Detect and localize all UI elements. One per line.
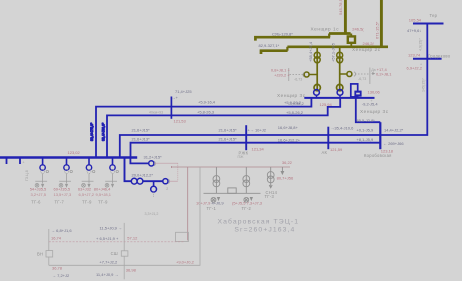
- wire feeder SUB-120.8: [255, 37, 330, 40]
- wire joint bus1 step: [328, 34, 330, 38]
- svg-text:16,6+Ј8,8+: 16,6+Ј8,8+: [278, 125, 299, 130]
- wire drop to station transformer lower: [125, 158, 163, 182]
- symbol TG-7 meas: [65, 169, 69, 173]
- svg-text:20,0+Ј12,2*: 20,0+Ј12,2*: [132, 172, 154, 177]
- breaker circle T2 LV: [337, 90, 343, 96]
- svg-text:36,22: 36,22: [282, 160, 293, 165]
- svg-text:121,59: 121,59: [330, 147, 343, 152]
- transformer TG-3 unit SN14: [270, 167, 272, 183]
- svg-text:71,4+Ј25: 71,4+Ј25: [175, 89, 192, 94]
- wire bus tick 2: [19, 158, 21, 165]
- busbar Ter: [413, 23, 444, 25]
- svg-text:ТГ-2: ТГ-2: [242, 206, 252, 211]
- generator G2 symbol: [244, 197, 249, 202]
- svg-text:(5+Ј5,5 7,3+Ј7,3: (5+Ј5,5 7,3+Ј7,3: [232, 201, 263, 206]
- svg-text:ТГ-9: ТГ-9: [82, 199, 92, 204]
- svg-text:+0,1-Ј5,9: +0,1-Ј5,9: [356, 127, 374, 132]
- svg-text:ТГ-1: ТГ-1: [207, 206, 217, 211]
- svg-text:Хенщир 2с: Хенщир 2с: [352, 47, 381, 52]
- svg-text:57,12: 57,12: [127, 236, 138, 241]
- svg-text:ВН: ВН: [37, 251, 43, 256]
- svg-text:80,7+Ј56: 80,7+Ј56: [277, 176, 294, 181]
- bus Khenshchir 2s: [287, 45, 388, 48]
- svg-text:246,2(: 246,2(: [363, 41, 375, 46]
- bus Khenshchir 1s: [329, 32, 351, 35]
- svg-text:123,74: 123,74: [408, 53, 421, 58]
- wire drop to station transformer upper: [130, 158, 148, 164]
- svg-text:Хенщир 3с: Хенщир 3с: [360, 109, 389, 114]
- wire V1 incoming 110kV line top: [344, 0, 347, 35]
- node Korobovskaya vertical: [379, 122, 381, 149]
- transformer T1 drop: [316, 47, 318, 90]
- svg-text:6,5+Ј7,2: 6,5+Ј7,2: [79, 192, 95, 197]
- wire thin pink collector line: [171, 166, 290, 168]
- svg-text:Коробовская: Коробовская: [364, 153, 392, 158]
- svg-text:4,9(15)*: 4,9(15)*: [418, 38, 422, 51]
- svg-text:671-15,5*: 671-15,5*: [374, 21, 379, 39]
- generator TG-6 breaker: [42, 158, 44, 165]
- svg-text:3,2+Ј7,5: 3,2+Ј7,5: [31, 192, 47, 197]
- svg-text:+9,0+Ј0,2: +9,0+Ј0,2: [176, 259, 195, 264]
- wire VN box link upper: [48, 229, 50, 251]
- svg-text:← 269+Ј66: ← 269+Ј66: [383, 141, 404, 146]
- svg-text:Тер: Тер: [430, 13, 438, 18]
- svg-text:ГЗ.Ц.8: ГЗ.Ц.8: [25, 170, 29, 181]
- transformer 20.0+J12.2 two circles: [131, 178, 137, 184]
- measurement arrow T1 tertiary: [289, 68, 305, 81]
- wire stub down to TG circle: [153, 181, 155, 186]
- breaker circle T1 LV: [314, 90, 320, 96]
- svg-text:-6,73: -6,73: [358, 77, 366, 81]
- symbol TG-8 meas: [87, 169, 91, 173]
- svg-text:Хенщир 1с: Хенщир 1с: [311, 27, 340, 32]
- breaker flag tall rect: [351, 84, 358, 97]
- symbol TG-9 meas: [111, 169, 115, 173]
- svg-text:13,5+Ј7,3: 13,5+Ј7,3: [54, 192, 72, 197]
- wire gray horizontal row to corner: [49, 167, 200, 265]
- svg-text:125,94: 125,94: [320, 102, 333, 107]
- busbar Grodekovo: [413, 58, 442, 60]
- wire feeder 82.9-327.1: [261, 51, 288, 54]
- svg-text:246,5(: 246,5(: [352, 27, 364, 32]
- symbol TG-6 meas: [41, 169, 45, 173]
- bus TEC-1 110kV main: [0, 156, 137, 159]
- svg-text:21,6+Ј15*: 21,6+Ј15*: [219, 128, 238, 133]
- wire line4 to Korobovskaya: [131, 143, 381, 158]
- wire line3 to Grodekovo: [120, 24, 428, 158]
- wire gen bus gray: [204, 192, 261, 194]
- svg-text:→+: →+: [172, 95, 179, 100]
- box VN: [46, 251, 53, 257]
- svg-text:30,4+Ј75,6*: 30,4+Ј75,6*: [90, 122, 94, 141]
- svg-text:14,4+Ј2,2*: 14,4+Ј2,2*: [384, 127, 404, 132]
- generator TG-9 breaker: [112, 158, 114, 165]
- wire from bus3 to Korobovskaya: [356, 98, 381, 122]
- svg-text:+8,1-Ј5,9: +8,1-Ј5,9: [356, 137, 374, 142]
- transformer T2 drop: [339, 47, 341, 90]
- generator TG-7 breaker: [66, 158, 68, 165]
- breaker circle lower end: [163, 179, 168, 184]
- svg-text:21,6+Ј15*: 21,6+Ј15*: [132, 128, 151, 133]
- breaker circle upper: [149, 161, 154, 166]
- svg-text:Хабаровская ТЭЦ-1: Хабаровская ТЭЦ-1: [218, 217, 300, 225]
- svg-text:121,53: 121,53: [174, 118, 187, 123]
- svg-text:СУБ-120,8*: СУБ-120,8*: [272, 31, 293, 36]
- svg-text:+Ј20,2 +: +Ј20,2 +: [274, 73, 290, 78]
- svg-text:16,74: 16,74: [51, 236, 62, 241]
- transformer TG-1 unit: [215, 167, 217, 193]
- svg-text:Гродеково: Гродеково: [428, 53, 451, 58]
- svg-text:-9,2-Ј5,4: -9,2-Ј5,4: [362, 102, 379, 107]
- svg-text:ТГ-3: ТГ-3: [265, 194, 275, 199]
- svg-text:21,6+Ј15*: 21,6+Ј15*: [219, 136, 238, 141]
- svg-text:130,06: 130,06: [368, 90, 381, 95]
- svg-text:2: 2: [166, 187, 168, 191]
- svg-text:6,9+Ј2,2: 6,9+Ј2,2: [407, 66, 423, 71]
- svg-text:11,5+Ј0,9 →: 11,5+Ј0,9 →: [100, 226, 123, 231]
- svg-text:69+Ј35,5: 69+Ј35,5: [54, 187, 71, 192]
- svg-text:Хенщир 3с: Хенщир 3с: [277, 93, 306, 98]
- svg-text:3,3+Ј1,2: 3,3+Ј1,2: [145, 212, 159, 216]
- svg-text:145(15)*: 145(15)*: [422, 78, 426, 92]
- svg-text:СШ: СШ: [111, 251, 118, 256]
- svg-text:63+Ј32: 63+Ј32: [78, 187, 92, 192]
- wire riser line2 to bus3 S-jog: [107, 98, 340, 158]
- wire bus tick 1: [6, 158, 8, 165]
- svg-text:→ 7,2+Ј2: → 7,2+Ј2: [52, 273, 70, 278]
- svg-text:+ 6,5+Ј1,9 +: + 6,5+Ј1,9 +: [96, 236, 119, 241]
- svg-text:38,4+Ј93,6*: 38,4+Ј93,6*: [101, 122, 105, 141]
- transformer T2 tertiary stub: [340, 73, 347, 75]
- svg-text:ТГ-7: ТГ-7: [55, 199, 65, 204]
- svg-text:→ 6,8+Ј1,6: → 6,8+Ј1,6: [51, 228, 72, 233]
- generator TG-8 breaker: [88, 158, 90, 165]
- svg-text:16,6+Ј12,2+: 16,6+Ј12,2+: [278, 138, 301, 143]
- wire thin pink link upper circle: [154, 163, 178, 181]
- svg-text:21,6+Ј13*: 21,6+Ј13*: [132, 136, 151, 141]
- symbol TG station lower meas: [153, 192, 155, 197]
- node RZhK vertical: [245, 125, 247, 150]
- wire pink drop 1: [187, 167, 189, 240]
- wire dashed pink long: [49, 241, 185, 243]
- wire V2 incoming 110kV line top right: [380, 0, 383, 48]
- svg-text:36,78: 36,78: [52, 266, 63, 271]
- svg-text:ПЖ: ПЖ: [238, 155, 245, 159]
- svg-text:121,34: 121,34: [252, 146, 265, 151]
- svg-text:545-78,5*: 545-78,5*: [338, 0, 343, 15]
- svg-text:+→ 10+Ј2: +→ 10+Ј2: [248, 128, 267, 133]
- svg-text:9,5+Ј8,1: 9,5+Ј8,1: [96, 192, 112, 197]
- svg-text:36,98: 36,98: [126, 267, 137, 272]
- svg-text:+: +: [23, 161, 25, 165]
- svg-text:ТГ-6: ТГ-6: [31, 199, 41, 204]
- svg-text:47+9,6↓: 47+9,6↓: [407, 28, 421, 33]
- svg-text:+7,7+Ј2,2: +7,7+Ј2,2: [99, 260, 118, 265]
- measurement arrow T2 tertiary: [354, 68, 375, 85]
- svg-text:40км+93: 40км+93: [149, 110, 163, 114]
- svg-text:0,8+Ј8,1 +: 0,8+Ј8,1 +: [271, 67, 291, 72]
- svg-text:+5,8-26,3: +5,8-26,3: [197, 109, 215, 114]
- breaker flag slot square: [354, 91, 361, 97]
- wire gray main vertical 35kV feeder: [123, 223, 125, 279]
- svg-text:+57,1-Ј8,5: +57,1-Ј8,5: [330, 42, 335, 62]
- svg-text:+5,9-16,4: +5,9-16,4: [198, 100, 216, 105]
- wire joint bus2 step: [286, 47, 288, 51]
- svg-text:54+Ј35,5: 54+Ј35,5: [30, 187, 47, 192]
- svg-text:+58,4+J5,4: +58,4+J5,4: [308, 41, 313, 62]
- breaker SQ1 between bus1 and bus2: [350, 34, 352, 47]
- generator G1 symbol: [211, 197, 216, 202]
- svg-text:Sг=260+Ј163,4: Sг=260+Ј163,4: [234, 227, 295, 234]
- wire riser line1 to bus3: [96, 98, 311, 158]
- node AK vertical: [327, 127, 329, 150]
- wire feeder 71.4+J25: [170, 97, 172, 119]
- svg-text:105,54: 105,54: [409, 17, 422, 22]
- measurement arrow 36.22: [281, 167, 283, 172]
- bus Khenshchir 3s: [304, 97, 374, 99]
- breaker box on gen bus: [228, 188, 236, 193]
- svg-text:0,2+Ј8,1: 0,2+Ј8,1: [376, 72, 392, 77]
- svg-text:→35,4-Ј10,6: →35,4-Ј10,6: [330, 125, 354, 130]
- svg-text:11,4+Ј0,9 →: 11,4+Ј0,9 →: [96, 272, 119, 277]
- transformer T1 tertiary stub: [309, 74, 317, 76]
- transformer TG-2 unit: [245, 167, 247, 193]
- generator measurement symbols: [35, 161, 169, 197]
- svg-text:ТГ-9: ТГ-9: [98, 199, 108, 204]
- box right small: [176, 232, 189, 241]
- svg-text:123,02: 123,02: [68, 150, 81, 155]
- wire VN box link lower: [48, 257, 50, 265]
- svg-text:+5,8-26,2: +5,8-26,2: [286, 110, 304, 115]
- svg-text:+5,9-26,2: +5,9-26,2: [284, 100, 302, 105]
- svg-text:АК: АК: [322, 150, 328, 155]
- box SSh: [121, 251, 128, 256]
- svg-text:80+Ј46,4: 80+Ј46,4: [94, 187, 111, 192]
- svg-text:85,5-Ј2,8*: 85,5-Ј2,8*: [357, 118, 376, 123]
- svg-text:82,9-327,1*: 82,9-327,1*: [259, 43, 280, 48]
- svg-text:-6,73: -6,73: [294, 78, 302, 82]
- svg-text:31,2+Ј15*: 31,2+Ј15*: [144, 154, 163, 159]
